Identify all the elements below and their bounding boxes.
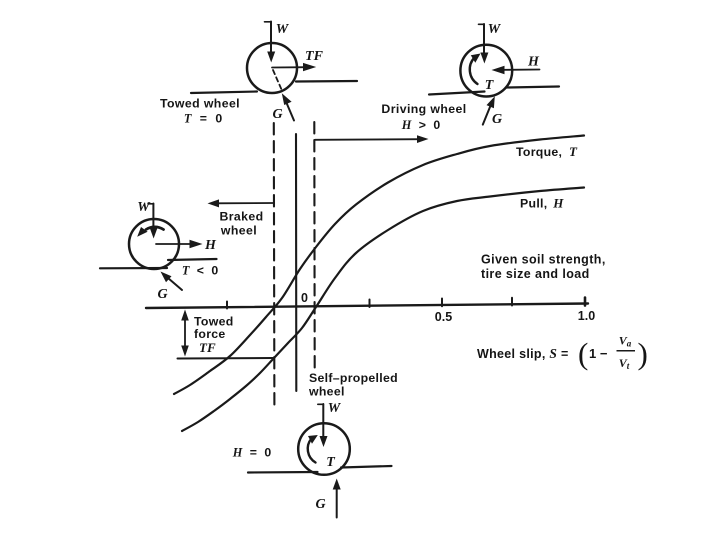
self-propelled G arrow [333,479,341,518]
x-axis [146,304,588,309]
svg-text:Self–propelled: Self–propelled [309,371,398,385]
towed wheel TF arrow [272,63,316,71]
svg-text:Driving wheel: Driving wheel [381,102,466,116]
svg-text:W: W [276,22,290,37]
svg-text:TF: TF [199,340,216,355]
driving wheel ground left [429,92,485,95]
tick 0.75 [511,298,513,306]
svg-text:W: W [488,22,502,37]
braked wheel torque arc arrow [137,227,163,237]
driving wheel G arrow [483,96,495,124]
svg-text:H: H [204,238,217,253]
towed wheel ground right [296,80,357,83]
braked wheel ground right [168,259,217,260]
svg-text:G: G [157,287,167,302]
driving wheel circle [460,45,512,97]
wheel slip formula [477,334,648,372]
svg-text:Braked: Braked [219,210,263,224]
braked wheel W arrow [148,204,158,239]
self-propelled W arrow [318,404,328,447]
svg-text:H > 0: H > 0 [401,118,441,132]
svg-text:T: T [326,455,336,470]
tick 0.25 [369,300,371,308]
arrow driving-wheel region (points right) [315,135,429,143]
svg-text:G: G [492,112,502,127]
self-propelled ground right [341,466,392,468]
svg-text:Va: Va [619,334,632,349]
svg-text:wheel: wheel [220,224,257,238]
braked wheel H arrow [156,240,203,248]
svg-text:1.0: 1.0 [578,309,595,323]
driving wheel W arrow [479,24,489,64]
svg-text:W: W [328,401,342,416]
braked wheel circle [129,219,179,269]
svg-text:(: ( [578,336,588,371]
self-propelled torque arc arrow [308,435,318,463]
svg-text:wheel: wheel [308,385,345,399]
tick -0.25 [226,302,228,309]
torque curve [174,136,584,395]
svg-text:G: G [315,497,325,512]
svg-text:TF: TF [305,49,324,64]
pull curve [182,188,584,432]
TF level line [178,357,274,360]
dashed line left (towed wheel slip) [273,123,276,410]
tick 1.0 [584,298,587,306]
braked wheel G arrow [161,272,183,291]
svg-text:tire size and load: tire size and load [481,267,590,281]
vertical axis line [295,134,297,391]
svg-text:H = 0: H = 0 [232,446,272,460]
towed wheel W arrow [265,22,276,63]
svg-text:Pull, H: Pull, H [520,196,564,211]
svg-text:Vt: Vt [619,356,630,371]
svg-text:G: G [272,107,282,122]
svg-text:Towed wheel: Towed wheel [160,97,240,111]
towed wheel circle [247,43,297,93]
self-propelled wheel circle [298,423,350,475]
svg-text:Given soil strength,: Given soil strength, [481,253,606,267]
TF double arrow [181,310,189,357]
svg-text:0: 0 [301,291,308,305]
svg-text:T: T [485,78,495,93]
towed wheel G arrow [282,93,294,120]
svg-text:Torque, T: Torque, T [516,144,578,159]
svg-text:Wheel slip, S =: Wheel slip, S = [477,346,569,361]
svg-text:H: H [527,55,540,70]
svg-text:0.5: 0.5 [435,310,452,324]
driving wheel torque arc arrow [470,54,481,85]
arrow braked-wheel region (points left) [208,199,275,207]
towed wheel ground left [191,92,257,94]
svg-text:force: force [194,327,226,341]
svg-text:T = 0: T = 0 [184,112,223,126]
svg-text:T < 0: T < 0 [182,264,219,278]
dashed line right (self-propelled slip) [313,122,316,371]
braked wheel ground left [100,267,167,269]
towed wheel G dashed radius [273,70,282,90]
driving wheel ground right [507,87,560,88]
self-propelled ground left [248,471,318,474]
svg-text:W: W [137,200,151,215]
svg-text:): ) [638,336,648,371]
svg-text:1 −: 1 − [589,346,608,361]
driving wheel H arrow [492,66,540,74]
tick 0.5 [441,299,443,307]
